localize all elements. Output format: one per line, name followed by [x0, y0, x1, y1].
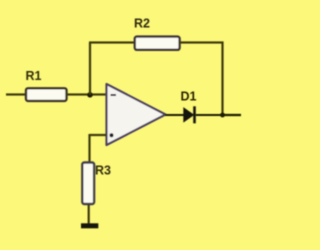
node B output junction dot: [220, 113, 225, 118]
label D1: [181, 90, 197, 104]
wire node A to op-amp inverting input: [90, 93, 107, 95]
wire R3 to ground: [88, 204, 90, 224]
resistor R1: [26, 88, 67, 101]
wire op-amp output to diode D1: [165, 114, 184, 116]
label R1: [26, 69, 42, 83]
wire feedback left segment: [89, 41, 135, 43]
op-amp non-inverting input marker (plus dot): [110, 133, 114, 137]
wire D1 to node B: [196, 114, 223, 116]
diode D1: [183, 106, 196, 123]
op-amp inverting input marker (minus): [111, 94, 117, 96]
resistor R3: [82, 163, 94, 205]
label R3: [95, 164, 111, 178]
wire node B to output end: [223, 114, 242, 116]
wire input stub to R1: [6, 93, 26, 95]
svg-text:R3: R3: [95, 164, 111, 178]
wire R1 to node A: [67, 93, 91, 95]
node A junction dot: [87, 92, 93, 98]
resistor R2: [135, 37, 180, 50]
wire op-amp non-inverting input: [90, 134, 107, 136]
svg-text:D1: D1: [181, 90, 197, 104]
wire feedback down to output node B: [221, 42, 223, 116]
svg-text:R1: R1: [26, 69, 42, 83]
label R2: [134, 17, 150, 31]
op-amp U1 body: [107, 84, 166, 145]
svg-text:R2: R2: [134, 17, 150, 31]
wire down from non-inverting input to R3: [88, 134, 90, 163]
wire feedback right segment: [179, 41, 224, 43]
ground bar: [81, 223, 98, 228]
wire node A up to feedback line: [89, 43, 91, 95]
